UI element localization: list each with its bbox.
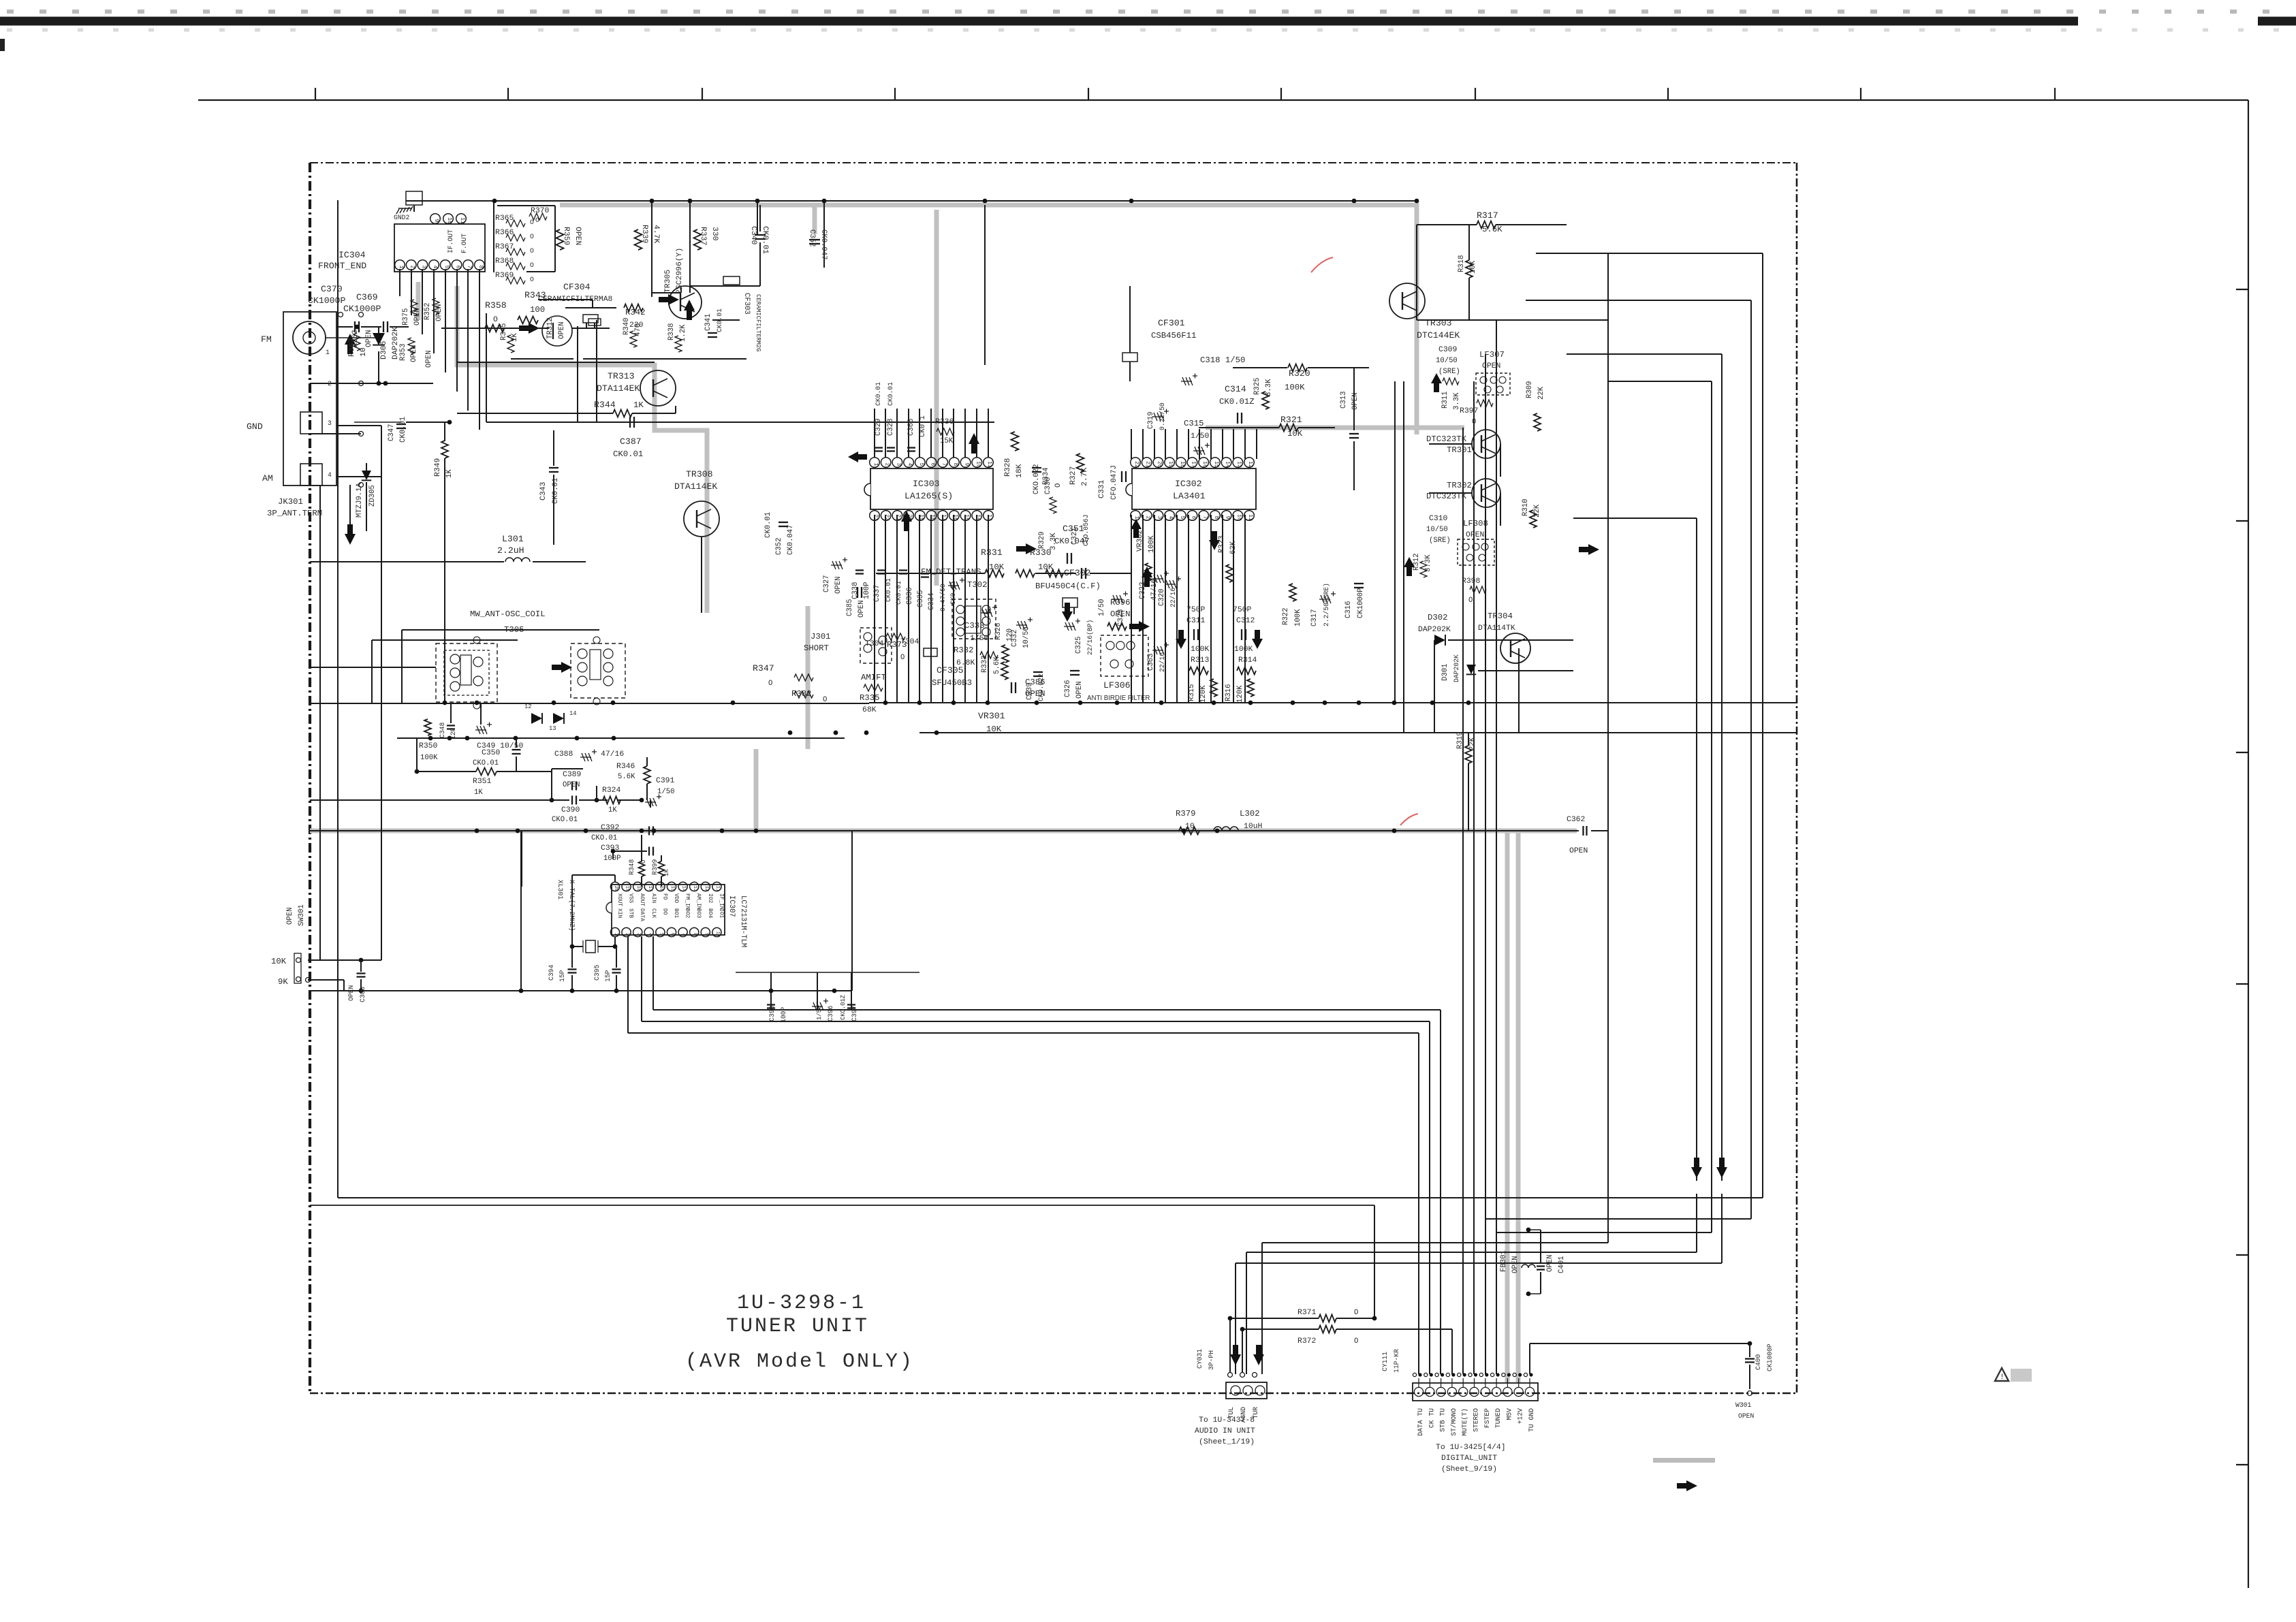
svg-text:DATA: DATA bbox=[639, 908, 645, 921]
svg-text:CK0.01: CK0.01 bbox=[552, 478, 560, 504]
svg-text:15: 15 bbox=[670, 886, 675, 891]
svg-text:LA3401: LA3401 bbox=[1173, 491, 1206, 501]
svg-text:R339: R339 bbox=[640, 225, 648, 244]
svg-text:TUNED: TUNED bbox=[1494, 1408, 1502, 1428]
svg-text:CK0.01: CK0.01 bbox=[399, 417, 407, 443]
svg-text:R331: R331 bbox=[981, 547, 1003, 558]
svg-text:IC303: IC303 bbox=[913, 479, 940, 489]
svg-text:R321: R321 bbox=[1280, 415, 1302, 425]
svg-text:R311: R311 bbox=[1441, 392, 1449, 409]
svg-text:12: 12 bbox=[1247, 461, 1253, 468]
svg-text:C395: C395 bbox=[593, 965, 601, 981]
svg-text:DTA114EK: DTA114EK bbox=[674, 481, 717, 492]
svg-text:O: O bbox=[530, 261, 534, 269]
svg-text:C314: C314 bbox=[1225, 384, 1246, 394]
svg-text:T304: T304 bbox=[865, 640, 884, 648]
svg-text:C370: C370 bbox=[321, 284, 343, 294]
svg-text:11: 11 bbox=[459, 217, 465, 224]
svg-text:DAP202K: DAP202K bbox=[1453, 654, 1460, 682]
svg-text:R358: R358 bbox=[485, 300, 507, 311]
svg-text:R367: R367 bbox=[495, 243, 514, 251]
svg-text:1/50: 1/50 bbox=[970, 635, 989, 643]
svg-text:C388: C388 bbox=[554, 750, 573, 759]
svg-text:2: 2 bbox=[884, 463, 890, 466]
svg-text:1: 1 bbox=[1133, 516, 1139, 520]
svg-text:16: 16 bbox=[658, 886, 663, 891]
svg-text:C317: C317 bbox=[1310, 609, 1319, 626]
svg-text:6: 6 bbox=[455, 266, 461, 269]
svg-text:15K: 15K bbox=[940, 437, 954, 445]
svg-text:BO1: BO1 bbox=[673, 908, 679, 918]
svg-text:AUDIO IN UNIT: AUDIO IN UNIT bbox=[1195, 1427, 1255, 1435]
svg-text:R347: R347 bbox=[753, 663, 774, 673]
svg-text:C315: C315 bbox=[1184, 419, 1204, 428]
svg-text:9: 9 bbox=[704, 933, 709, 936]
svg-text:BO3: BO3 bbox=[695, 908, 702, 918]
svg-text:C350: C350 bbox=[482, 749, 501, 757]
svg-text:14: 14 bbox=[1225, 461, 1231, 468]
svg-text:R324: R324 bbox=[602, 786, 621, 795]
svg-text:O: O bbox=[768, 680, 772, 688]
svg-text:8: 8 bbox=[477, 266, 484, 269]
svg-text:CKO.01: CKO.01 bbox=[552, 816, 578, 824]
svg-text:C387: C387 bbox=[620, 436, 642, 447]
svg-text:OPEN: OPEN bbox=[1351, 393, 1359, 410]
svg-text:19: 19 bbox=[625, 886, 630, 891]
svg-text:R348: R348 bbox=[628, 859, 635, 875]
svg-text:17: 17 bbox=[941, 514, 947, 521]
svg-text:3: 3 bbox=[635, 933, 641, 936]
svg-text:C325: C325 bbox=[1075, 637, 1083, 654]
svg-text:STB: STB bbox=[628, 908, 634, 918]
svg-text:23: 23 bbox=[872, 514, 879, 521]
svg-text:5: 5 bbox=[1179, 516, 1185, 520]
svg-text:R333: R333 bbox=[981, 656, 989, 673]
svg-text:R316: R316 bbox=[1225, 684, 1233, 701]
svg-text:C366: C366 bbox=[907, 419, 915, 436]
svg-text:100P: 100P bbox=[603, 855, 620, 863]
svg-text:10K: 10K bbox=[271, 957, 287, 966]
svg-text:C343: C343 bbox=[539, 481, 548, 500]
svg-text:JK301: JK301 bbox=[278, 497, 303, 507]
svg-text:R368: R368 bbox=[495, 257, 514, 266]
svg-text:CERAMICFILTERM2G: CERAMICFILTERM2G bbox=[755, 294, 761, 351]
svg-text:O: O bbox=[823, 696, 827, 704]
svg-text:10uH: 10uH bbox=[1244, 823, 1262, 831]
svg-text:2: 2 bbox=[1145, 516, 1151, 520]
svg-text:!: ! bbox=[2000, 1373, 2004, 1382]
svg-text:10K: 10K bbox=[1038, 562, 1054, 572]
svg-text:R322: R322 bbox=[1282, 608, 1290, 625]
svg-text:R371: R371 bbox=[1298, 1309, 1317, 1317]
svg-text:13: 13 bbox=[1236, 461, 1242, 468]
svg-text:IF.OUT: IF.OUT bbox=[447, 229, 454, 253]
svg-text:1: 1 bbox=[872, 463, 879, 466]
svg-text:18: 18 bbox=[635, 886, 641, 891]
svg-text:VSS: VSS bbox=[628, 893, 634, 903]
svg-text:22K: 22K bbox=[1537, 386, 1545, 400]
svg-text:R335: R335 bbox=[860, 693, 880, 703]
svg-text:FD: FD bbox=[661, 893, 667, 900]
svg-text:C339: C339 bbox=[1026, 683, 1034, 700]
svg-text:10: 10 bbox=[446, 217, 452, 224]
svg-text:C400: C400 bbox=[1755, 1354, 1762, 1370]
svg-text:100K: 100K bbox=[1285, 383, 1305, 392]
svg-text:DTA114TK: DTA114TK bbox=[1478, 624, 1515, 633]
svg-text:R315: R315 bbox=[1188, 684, 1196, 701]
svg-text:15P: 15P bbox=[604, 970, 612, 982]
svg-text:D302: D302 bbox=[1428, 613, 1448, 622]
svg-text:9: 9 bbox=[964, 463, 970, 466]
svg-text:6: 6 bbox=[670, 933, 675, 936]
svg-text:9: 9 bbox=[1225, 516, 1231, 520]
svg-text:C363: C363 bbox=[1147, 654, 1155, 671]
svg-text:C333: C333 bbox=[964, 621, 985, 631]
svg-text:750P: 750P bbox=[1186, 606, 1206, 614]
svg-text:20: 20 bbox=[613, 886, 618, 891]
svg-text:21: 21 bbox=[895, 514, 901, 521]
svg-text:220: 220 bbox=[629, 321, 644, 330]
svg-text:750P: 750P bbox=[1233, 606, 1252, 614]
svg-text:OPEN: OPEN bbox=[558, 322, 566, 339]
svg-text:10: 10 bbox=[975, 461, 981, 468]
svg-text:3: 3 bbox=[1156, 516, 1162, 520]
svg-text:(Sheet_1/19): (Sheet_1/19) bbox=[1199, 1438, 1255, 1446]
svg-text:O: O bbox=[530, 247, 534, 255]
svg-text:STEREO: STEREO bbox=[1473, 1408, 1480, 1432]
svg-text:6: 6 bbox=[1191, 516, 1197, 520]
svg-text:R317: R317 bbox=[1477, 210, 1498, 221]
svg-text:C340: C340 bbox=[749, 226, 757, 245]
svg-text:18K: 18K bbox=[1016, 464, 1024, 478]
svg-text:4: 4 bbox=[328, 471, 332, 479]
svg-text:(SRE): (SRE) bbox=[1429, 537, 1451, 545]
svg-text:62K: 62K bbox=[1229, 541, 1238, 554]
svg-text:FM_DET_TRANS: FM_DET_TRANS bbox=[921, 567, 981, 577]
svg-text:R336: R336 bbox=[935, 418, 954, 426]
svg-text:IC304: IC304 bbox=[339, 250, 366, 260]
svg-text:CLK: CLK bbox=[650, 908, 657, 918]
svg-text:DTA114EK: DTA114EK bbox=[597, 383, 640, 394]
svg-text:IO2: IO2 bbox=[707, 893, 713, 903]
svg-text:18: 18 bbox=[1179, 461, 1185, 468]
svg-text:LC72131M-TLM: LC72131M-TLM bbox=[739, 895, 747, 947]
svg-text:C401: C401 bbox=[1558, 1256, 1566, 1273]
svg-text:O: O bbox=[493, 316, 498, 324]
svg-text:O: O bbox=[900, 654, 905, 662]
svg-text:15: 15 bbox=[964, 514, 970, 521]
svg-text:8: 8 bbox=[1213, 516, 1219, 520]
svg-text:R359: R359 bbox=[562, 227, 570, 246]
svg-text:5: 5 bbox=[658, 933, 663, 936]
svg-text:13: 13 bbox=[986, 514, 992, 521]
svg-text:R310: R310 bbox=[1522, 499, 1530, 516]
svg-text:330: 330 bbox=[710, 227, 719, 241]
svg-text:TR302: TR302 bbox=[1447, 481, 1472, 490]
svg-text:C369: C369 bbox=[356, 292, 378, 302]
svg-text:2: 2 bbox=[409, 266, 415, 269]
svg-text:21: 21 bbox=[1145, 461, 1151, 468]
svg-text:R366: R366 bbox=[495, 229, 514, 237]
svg-text:ANTI BIRDIE FILTER: ANTI BIRDIE FILTER bbox=[1087, 695, 1150, 702]
svg-text:3: 3 bbox=[328, 419, 332, 427]
svg-text:22/16: 22/16 bbox=[1159, 652, 1166, 672]
svg-text:XL301: XL301 bbox=[556, 880, 564, 900]
svg-text:R309: R309 bbox=[1526, 381, 1534, 398]
svg-text:MTZJ9.1A: MTZJ9.1A bbox=[356, 482, 364, 518]
svg-text:C389: C389 bbox=[563, 771, 582, 779]
svg-text:O: O bbox=[530, 233, 534, 240]
svg-text:1: 1 bbox=[326, 349, 330, 356]
svg-text:5.6K: 5.6K bbox=[993, 656, 1001, 674]
svg-text:OPEN: OPEN bbox=[286, 908, 294, 925]
svg-text:0.47/50: 0.47/50 bbox=[939, 584, 947, 611]
svg-text:CF303: CF303 bbox=[742, 293, 751, 315]
svg-text:LA1265(S): LA1265(S) bbox=[905, 491, 953, 501]
svg-text:D306: D306 bbox=[380, 340, 388, 360]
svg-text:5.6K: 5.6K bbox=[1482, 225, 1503, 234]
svg-text:1K: 1K bbox=[474, 789, 483, 797]
svg-text:10: 10 bbox=[714, 932, 720, 937]
svg-text:15: 15 bbox=[1213, 461, 1219, 468]
svg-text:C347: C347 bbox=[388, 424, 396, 441]
svg-text:AOUT: AOUT bbox=[639, 893, 645, 906]
svg-text:R332: R332 bbox=[954, 646, 974, 655]
svg-text:TR305: TR305 bbox=[664, 270, 672, 293]
svg-text:CK0.01: CK0.01 bbox=[885, 578, 892, 602]
svg-text:14: 14 bbox=[975, 514, 981, 521]
svg-text:3P_ANT.TERM: 3P_ANT.TERM bbox=[267, 509, 322, 518]
svg-text:CK1000P: CK1000P bbox=[308, 296, 345, 306]
svg-text:TR301: TR301 bbox=[1447, 445, 1472, 455]
svg-text:IO1: IO1 bbox=[718, 908, 724, 918]
svg-text:R379: R379 bbox=[1176, 809, 1196, 818]
svg-text:20: 20 bbox=[1156, 461, 1162, 468]
svg-text:3: 3 bbox=[420, 266, 426, 269]
svg-text:SHORT: SHORT bbox=[804, 643, 829, 653]
svg-text:5: 5 bbox=[443, 266, 450, 269]
svg-text:14: 14 bbox=[681, 886, 687, 891]
svg-text:R397: R397 bbox=[1460, 407, 1478, 415]
svg-text:1/50: 1/50 bbox=[1098, 599, 1106, 616]
svg-text:C328: C328 bbox=[887, 419, 895, 436]
svg-text:CF301: CF301 bbox=[1158, 318, 1185, 328]
svg-text:D301: D301 bbox=[1441, 664, 1449, 681]
svg-text:OPEN: OPEN bbox=[573, 227, 582, 245]
svg-text:C313: C313 bbox=[1340, 392, 1348, 409]
svg-text:OPEN: OPEN bbox=[858, 601, 866, 618]
svg-text:FB301: FB301 bbox=[1500, 1250, 1508, 1272]
svg-text:C352: C352 bbox=[808, 229, 816, 247]
svg-text:CK TU: CK TU bbox=[1428, 1408, 1435, 1428]
svg-text:R319: R319 bbox=[1456, 732, 1464, 749]
svg-text:L302: L302 bbox=[1240, 809, 1260, 818]
svg-text:R365: R365 bbox=[495, 214, 514, 223]
svg-text:4: 4 bbox=[647, 933, 652, 936]
svg-text:17: 17 bbox=[647, 886, 652, 891]
svg-text:CK0.047: CK0.047 bbox=[787, 524, 795, 555]
svg-text:2.2/50(SRE): 2.2/50(SRE) bbox=[1323, 583, 1330, 626]
svg-text:4: 4 bbox=[1167, 516, 1174, 520]
svg-text:10/50: 10/50 bbox=[1436, 357, 1458, 365]
svg-text:R337: R337 bbox=[699, 227, 707, 245]
svg-text:J301: J301 bbox=[811, 632, 831, 641]
svg-text:C327: C327 bbox=[823, 575, 831, 592]
svg-text:C316: C316 bbox=[1344, 601, 1353, 618]
svg-text:OPEN: OPEN bbox=[1511, 1256, 1520, 1273]
svg-text:CK1000P: CK1000P bbox=[1357, 588, 1365, 618]
svg-text:13: 13 bbox=[692, 886, 697, 891]
svg-text:O: O bbox=[1472, 418, 1476, 426]
svg-text:O: O bbox=[1054, 483, 1063, 488]
svg-text:3: 3 bbox=[895, 463, 901, 466]
svg-text:100P: 100P bbox=[780, 1007, 787, 1023]
svg-text:C310: C310 bbox=[1429, 515, 1448, 523]
svg-text:C348: C348 bbox=[439, 722, 446, 738]
svg-text:O: O bbox=[1354, 1337, 1358, 1346]
svg-text:68K: 68K bbox=[862, 706, 877, 714]
svg-text:100K: 100K bbox=[420, 754, 438, 762]
svg-text:C385: C385 bbox=[846, 599, 854, 616]
svg-text:W301: W301 bbox=[1735, 1401, 1751, 1409]
svg-text:18: 18 bbox=[930, 514, 936, 521]
svg-text:CSB456F11: CSB456F11 bbox=[1151, 331, 1196, 340]
svg-text:R328: R328 bbox=[1004, 458, 1012, 477]
svg-text:120K: 120K bbox=[1199, 685, 1208, 703]
svg-text:C396: C396 bbox=[827, 1006, 834, 1021]
svg-text:DO: DO bbox=[661, 908, 667, 915]
svg-text:FSTEP: FSTEP bbox=[1483, 1408, 1491, 1428]
svg-text:17: 17 bbox=[1191, 461, 1197, 468]
svg-text:LF308: LF308 bbox=[1463, 519, 1488, 528]
svg-text:DTC323TK: DTC323TK bbox=[1426, 434, 1467, 444]
svg-text:CKO.022: CKO.022 bbox=[1033, 464, 1041, 494]
svg-text:C341: C341 bbox=[704, 314, 712, 331]
svg-text:1: 1 bbox=[613, 933, 618, 936]
svg-text:CK0.01: CK0.01 bbox=[875, 382, 882, 406]
svg-text:TR308: TR308 bbox=[686, 469, 713, 479]
svg-text:OPEN: OPEN bbox=[425, 351, 433, 368]
svg-text:100K: 100K bbox=[1148, 535, 1156, 553]
svg-text:TUNER UNIT: TUNER UNIT bbox=[726, 1315, 869, 1338]
svg-text:CKO.01: CKO.01 bbox=[473, 759, 499, 767]
svg-text:4: 4 bbox=[907, 463, 913, 466]
svg-text:BO2: BO2 bbox=[685, 908, 691, 918]
svg-text:3.3K: 3.3K bbox=[1424, 554, 1432, 572]
svg-text:15P: 15P bbox=[559, 970, 566, 982]
svg-text:CKO.01Z: CKO.01Z bbox=[840, 995, 847, 1020]
svg-text:11: 11 bbox=[1247, 514, 1253, 521]
svg-text:C318 1/50: C318 1/50 bbox=[1200, 355, 1245, 365]
svg-text:CK1000P: CK1000P bbox=[1766, 1343, 1774, 1371]
svg-text:(Sheet_9/19): (Sheet_9/19) bbox=[1441, 1465, 1497, 1474]
svg-text:CK0.01: CK0.01 bbox=[613, 449, 643, 459]
svg-text:1K: 1K bbox=[445, 469, 454, 478]
svg-text:8: 8 bbox=[692, 933, 697, 936]
svg-text:120K: 120K bbox=[1236, 685, 1244, 703]
svg-text:7: 7 bbox=[1201, 516, 1208, 520]
svg-text:C335: C335 bbox=[917, 590, 925, 607]
svg-text:10: 10 bbox=[1236, 514, 1242, 521]
svg-text:XOUT: XOUT bbox=[616, 893, 623, 906]
svg-text:3.3K: 3.3K bbox=[1050, 532, 1058, 550]
svg-text:+12V: +12V bbox=[1517, 1408, 1524, 1424]
svg-text:12: 12 bbox=[704, 886, 709, 891]
svg-text:FM: FM bbox=[261, 334, 272, 345]
svg-text:4: 4 bbox=[432, 266, 438, 269]
svg-text:OPEN: OPEN bbox=[1569, 847, 1588, 855]
svg-text:19: 19 bbox=[918, 514, 924, 521]
svg-text:R349: R349 bbox=[434, 458, 442, 477]
svg-text:1/50: 1/50 bbox=[1191, 432, 1210, 441]
svg-text:10K: 10K bbox=[986, 725, 1002, 734]
svg-text:CK0.01: CK0.01 bbox=[887, 382, 894, 406]
svg-text:C312: C312 bbox=[1236, 617, 1255, 625]
svg-text:OPEN: OPEN bbox=[1482, 362, 1500, 370]
svg-text:LF307: LF307 bbox=[1479, 350, 1505, 360]
svg-text:CF305: CF305 bbox=[937, 665, 964, 675]
svg-text:AMIFT: AMIFT bbox=[861, 673, 886, 682]
svg-text:2: 2 bbox=[625, 933, 630, 936]
svg-text:R369: R369 bbox=[495, 272, 514, 280]
svg-text:R329: R329 bbox=[1038, 532, 1046, 549]
svg-text:1K: 1K bbox=[633, 400, 644, 410]
svg-text:10/50: 10/50 bbox=[1022, 626, 1031, 648]
svg-text:O: O bbox=[1354, 1309, 1358, 1317]
svg-text:22: 22 bbox=[884, 514, 890, 521]
svg-text:R346: R346 bbox=[616, 763, 635, 771]
svg-text:CY111: CY111 bbox=[1381, 1352, 1389, 1371]
svg-text:R350: R350 bbox=[419, 742, 438, 750]
svg-text:6: 6 bbox=[930, 463, 936, 466]
svg-text:C390: C390 bbox=[561, 806, 580, 814]
svg-text:DATA TU: DATA TU bbox=[1417, 1408, 1424, 1436]
svg-text:C321: C321 bbox=[1071, 528, 1079, 545]
svg-text:16: 16 bbox=[1201, 461, 1208, 468]
svg-text:12: 12 bbox=[524, 703, 532, 710]
svg-text:DTC144EK: DTC144EK bbox=[1417, 330, 1460, 340]
svg-text:OPEN: OPEN bbox=[1546, 1255, 1554, 1272]
svg-text:C331: C331 bbox=[1098, 479, 1106, 498]
svg-text:ZD305: ZD305 bbox=[368, 485, 377, 507]
svg-text:MW_ANT-OSC_COIL: MW_ANT-OSC_COIL bbox=[470, 609, 546, 619]
svg-text:CFO.047J: CFO.047J bbox=[1110, 465, 1118, 500]
svg-text:R313: R313 bbox=[1191, 656, 1210, 665]
svg-text:FRONT_END: FRONT_END bbox=[318, 261, 366, 271]
svg-text:47/16: 47/16 bbox=[601, 750, 624, 759]
svg-text:10: 10 bbox=[360, 347, 368, 357]
svg-text:GND2: GND2 bbox=[394, 214, 409, 221]
svg-text:16: 16 bbox=[952, 514, 958, 521]
svg-text:TU GND: TU GND bbox=[1528, 1408, 1535, 1432]
svg-text:(SRE): (SRE) bbox=[1438, 368, 1460, 376]
svg-text:CY031: CY031 bbox=[1196, 1349, 1204, 1369]
svg-text:13: 13 bbox=[549, 725, 556, 732]
svg-text:8: 8 bbox=[952, 463, 958, 466]
svg-text:C334: C334 bbox=[928, 593, 936, 610]
svg-text:OPEN: OPEN bbox=[1075, 682, 1084, 699]
svg-text:OPEN: OPEN bbox=[834, 577, 843, 594]
svg-text:SFU450B3: SFU450B3 bbox=[932, 678, 972, 688]
svg-text:OPEN: OPEN bbox=[563, 781, 580, 789]
svg-text:C336: C336 bbox=[906, 588, 914, 605]
svg-text:C362: C362 bbox=[1567, 816, 1586, 824]
svg-text:14: 14 bbox=[569, 710, 577, 717]
svg-text:AM_IN: AM_IN bbox=[695, 893, 702, 910]
svg-text:STB TU: STB TU bbox=[1439, 1408, 1447, 1432]
svg-text:T302: T302 bbox=[967, 580, 988, 590]
svg-text:CK0.01: CK0.01 bbox=[764, 512, 772, 538]
